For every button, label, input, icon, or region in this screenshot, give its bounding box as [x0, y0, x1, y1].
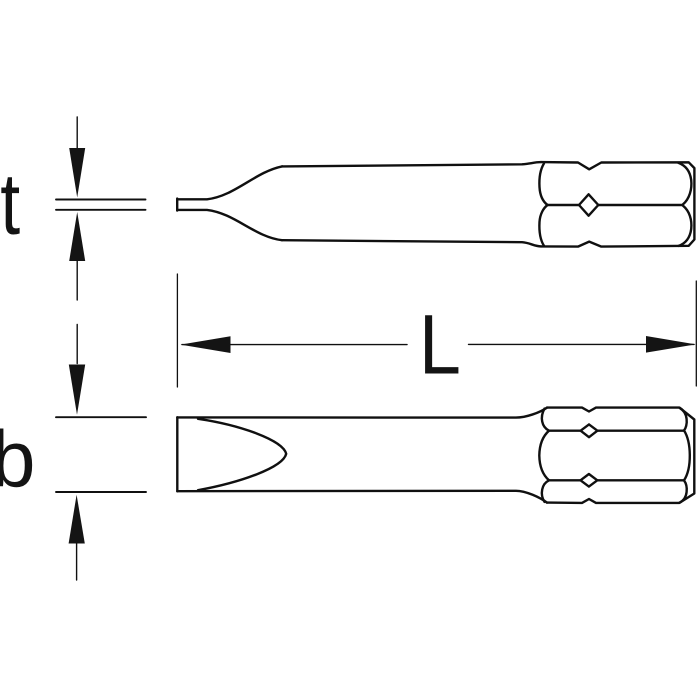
side view: shank right chamfer lower arc [679, 206, 692, 246]
face view: shank left chamfer upper arc [542, 409, 549, 431]
L dimension left arrowhead [181, 336, 231, 353]
svg-text:b: b [0, 415, 36, 504]
side view: shank right chamfer upper arc [679, 163, 692, 204]
face view: lower facet line left segment [549, 479, 581, 481]
face view: upper facet line right segment [597, 430, 684, 432]
t dimension lower leader line [56, 209, 146, 211]
face view: shank right chamfer middle arc [684, 430, 690, 480]
face view: shank left chamfer middle arc [539, 431, 549, 481]
side view: shank middle corner line left segment [548, 204, 580, 206]
face view: blade top edge [177, 408, 547, 418]
b dimension lower arrowhead (pointing up) [69, 495, 85, 544]
side view: shank middle corner line right segment [598, 204, 683, 206]
face view: hex shank outline with groove notches and chamfered end [547, 408, 694, 503]
face view: blade ground-face curve [198, 419, 286, 490]
svg-text:L: L [419, 298, 461, 392]
b dimension upper arrowhead (pointing down) [69, 365, 85, 415]
side view: shaft bottom edge [282, 240, 541, 246]
side view: bit tip left edge [176, 199, 178, 211]
side view: hex shank outline with groove notches and chamfered end [541, 162, 694, 247]
L dimension line left segment [182, 344, 407, 346]
side view: bit tip and blade taper bottom profile [177, 210, 282, 240]
t dimension upper arrow stem [76, 117, 78, 150]
t dimension lower arrowhead (pointing up) [69, 212, 85, 261]
face view: shank right chamfer lower arc [680, 480, 687, 502]
face view: lower facet line right segment [597, 479, 684, 481]
face view: groove diamond on upper facet line [581, 424, 598, 437]
face view: shank right chamfer upper arc [680, 408, 687, 431]
L dimension line right segment [469, 343, 695, 345]
side view: shank left chamfer lower arc [539, 205, 547, 246]
t dimension upper leader line [56, 199, 146, 201]
side view: bit tip and blade taper top profile [177, 166, 282, 199]
b dimension upper leader line [56, 416, 146, 418]
L dimension left extension line [176, 274, 178, 387]
face view: shank left chamfer lower arc [542, 480, 549, 502]
L dimension right extension line [695, 281, 697, 386]
svg-text:t: t [0, 156, 20, 253]
face view: blade bottom edge [177, 491, 547, 503]
b dimension lower leader line [56, 491, 146, 493]
face view: groove diamond on lower facet line [581, 474, 598, 487]
L dimension right arrowhead [646, 336, 696, 353]
side view: groove diamond on middle corner [579, 194, 598, 215]
b lower arrow stem [76, 544, 78, 581]
t dimension upper arrowhead (pointing down) [69, 148, 85, 198]
t lower arrow stem segment 2 (after dash gap) [76, 325, 78, 364]
t lower arrow stem segment 1 [76, 261, 78, 300]
side view: shank left chamfer upper arc [539, 163, 547, 205]
face view: blade left end edge [176, 417, 178, 491]
side view: shaft top edge [282, 162, 541, 166]
face view: upper facet line left segment [549, 430, 581, 432]
